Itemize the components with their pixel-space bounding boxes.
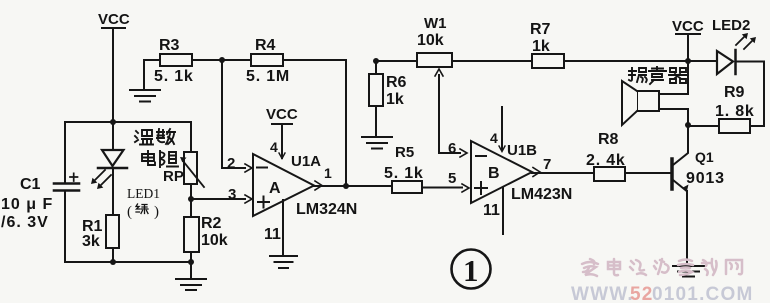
svg-text:R5: R5	[395, 144, 414, 161]
LED LED2	[714, 33, 764, 126]
label W1 value	[417, 15, 447, 49]
wire bottom rail of sensor bridge	[65, 261, 191, 263]
svg-text:R4: R4	[255, 37, 276, 54]
svg-text:1: 1	[463, 253, 479, 288]
potentiometer W1	[417, 53, 467, 157]
svg-text:1. 8k: 1. 8k	[715, 103, 755, 120]
svg-text:9013: 9013	[686, 170, 725, 187]
resistor R5	[392, 181, 469, 193]
op-amp U1B	[471, 141, 532, 203]
svg-text:LED2: LED2	[712, 17, 750, 34]
svg-text:R7: R7	[530, 21, 551, 38]
capacitor C1	[54, 122, 79, 262]
svg-text:B: B	[488, 165, 500, 182]
svg-text:WWW.: WWW.	[571, 284, 634, 303]
circled figure number 1	[452, 250, 491, 289]
svg-text:10k: 10k	[201, 232, 228, 249]
wire U1B output	[532, 168, 594, 177]
label R4 value	[246, 37, 290, 85]
transistor Q1	[672, 125, 689, 265]
node junction R1 bottom	[110, 259, 116, 265]
svg-text:LED1: LED1	[127, 186, 160, 201]
svg-text:10k: 10k	[417, 32, 444, 49]
svg-text:/6. 3V: /6. 3V	[1, 214, 49, 231]
node junction VCC bus	[685, 58, 691, 64]
label R2 value	[201, 215, 228, 249]
node junction feedback	[343, 183, 349, 189]
svg-text:7: 7	[543, 156, 551, 173]
humidity sensor RP	[180, 122, 204, 217]
VCC symbol right	[672, 18, 704, 94]
node junction R3-R4	[219, 57, 225, 63]
svg-text:U1A: U1A	[291, 153, 321, 170]
svg-text:2: 2	[227, 155, 235, 172]
label R1 value	[82, 218, 103, 250]
LED LED1	[91, 122, 127, 215]
label R7 value	[530, 21, 551, 55]
label R8 value	[586, 131, 626, 169]
resistor R3	[144, 54, 251, 89]
label R5 value	[384, 144, 424, 182]
svg-text:Q1: Q1	[695, 149, 714, 165]
svg-text:52: 52	[630, 284, 654, 303]
node junction RP wiper	[188, 196, 194, 202]
svg-text:5. 1M: 5. 1M	[246, 68, 290, 85]
wire main bus to W1	[376, 60, 417, 62]
svg-text:): )	[154, 204, 159, 220]
svg-text:LM423N: LM423N	[511, 186, 572, 203]
svg-text:(: (	[127, 204, 132, 220]
wire to pin3	[191, 198, 245, 200]
svg-text:6: 6	[448, 140, 456, 157]
svg-text:3k: 3k	[82, 233, 100, 250]
wire U1B pin11	[502, 188, 504, 234]
watermark url	[571, 284, 753, 303]
svg-text:11: 11	[483, 202, 500, 219]
svg-text:0101.COM: 0101.COM	[652, 284, 753, 303]
svg-text:R8: R8	[598, 131, 619, 148]
resistor R1	[106, 215, 119, 262]
svg-text:LM324N: LM324N	[296, 201, 357, 218]
op-amp U1A	[253, 154, 314, 216]
label R6 value	[386, 74, 407, 108]
svg-text:4: 4	[270, 139, 278, 155]
wire U1B pin4	[499, 107, 505, 152]
wire W1 to R7	[452, 60, 532, 62]
svg-text:11: 11	[264, 226, 281, 243]
ground U1A pin11	[270, 200, 297, 268]
label Q1	[686, 149, 725, 187]
svg-text:3: 3	[228, 186, 236, 203]
label humidity resistor chars	[135, 129, 178, 167]
label C1 value	[1, 176, 53, 231]
svg-text:C1: C1	[20, 176, 41, 193]
ground R3	[130, 90, 160, 102]
resistor R4	[251, 54, 346, 186]
label R9 value	[715, 84, 755, 120]
wire top rail of sensor bridge	[65, 121, 191, 123]
label R3 value	[154, 37, 194, 85]
resistor R6	[369, 58, 383, 136]
resistor R9	[688, 119, 764, 133]
svg-text:VCC: VCC	[98, 11, 130, 28]
svg-text:VCC: VCC	[266, 106, 298, 123]
svg-text:10 μ F: 10 μ F	[1, 196, 53, 213]
svg-text:A: A	[269, 180, 281, 197]
node junction collector	[685, 122, 691, 128]
wire U1A output	[314, 181, 392, 190]
label speaker chars	[629, 67, 687, 84]
svg-text:RP: RP	[163, 168, 184, 185]
svg-text:1k: 1k	[532, 38, 550, 55]
glyph green char	[136, 204, 148, 214]
svg-text:W1: W1	[424, 15, 447, 32]
svg-text:4: 4	[490, 130, 498, 146]
wire to pin2	[222, 60, 252, 172]
resistor R7	[532, 54, 716, 68]
svg-text:R3: R3	[159, 37, 180, 54]
svg-text:R6: R6	[386, 74, 407, 91]
svg-text:R2: R2	[201, 215, 222, 232]
VCC symbol U1A pin4	[266, 106, 298, 159]
ground sensor bridge	[176, 262, 206, 290]
svg-text:VCC: VCC	[672, 18, 704, 35]
svg-text:5: 5	[448, 170, 456, 187]
svg-text:1k: 1k	[386, 91, 404, 108]
svg-text:5. 1k: 5. 1k	[384, 165, 424, 182]
speaker	[622, 81, 688, 125]
svg-text:2. 4k: 2. 4k	[586, 152, 626, 169]
ground R6	[362, 137, 392, 149]
watermark chinese chars	[582, 259, 742, 276]
ground Q1	[673, 266, 704, 277]
svg-text:R9: R9	[724, 84, 745, 101]
VCC symbol left	[98, 11, 130, 121]
label LED1 (green)	[127, 186, 160, 220]
svg-text:1: 1	[324, 165, 332, 181]
node junction R2 bottom	[188, 259, 194, 265]
resistor R8	[594, 167, 671, 181]
node junction VCC rail	[110, 119, 116, 125]
svg-text:U1B: U1B	[507, 142, 537, 159]
svg-text:5. 1k: 5. 1k	[154, 68, 194, 85]
resistor R2	[184, 217, 199, 252]
